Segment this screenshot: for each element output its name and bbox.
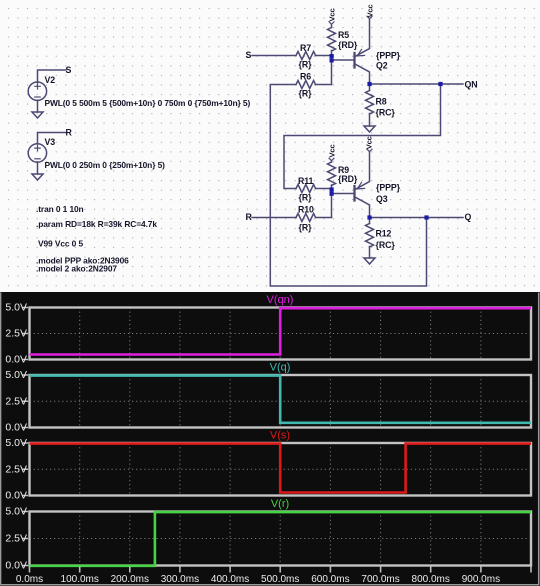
node base Q3 — [330, 192, 334, 196]
node R11/R9 — [330, 187, 334, 191]
wire R6 left / feedback from Q — [270, 85, 426, 287]
svg-text:{R}: {R} — [299, 193, 313, 203]
svg-text:200.0ms: 200.0ms — [111, 574, 149, 585]
svg-text:0.0V: 0.0V — [5, 354, 27, 366]
voltage source V2 — [28, 82, 46, 100]
resistor R6 — [296, 81, 316, 89]
svg-text:0.0V: 0.0V — [5, 422, 27, 434]
svg-text:S: S — [246, 50, 252, 60]
wire Q3 collector to R12 — [369, 218, 371, 224]
svg-text:900.0ms: 900.0ms — [462, 574, 500, 585]
pane 3 border — [30, 443, 532, 496]
svg-text:V(s): V(s) — [270, 430, 290, 442]
schematic background — [0, 0, 540, 292]
junction node dots — [330, 54, 443, 220]
x-axis ticks — [30, 567, 532, 573]
svg-text:0.0ms: 0.0ms — [16, 574, 43, 585]
svg-text:{R}: {R} — [299, 60, 313, 70]
svg-text:PWL(0 0 250m 0 {250m+10n} 5): PWL(0 0 250m 0 {250m+10n} 5) — [45, 160, 166, 170]
svg-text:800.0ms: 800.0ms — [412, 574, 450, 585]
pane 3 gridlines — [30, 443, 532, 496]
node QN at Q2 collector — [367, 82, 371, 86]
svg-text:Vcc: Vcc — [327, 144, 336, 157]
svg-text:700.0ms: 700.0ms — [361, 574, 399, 585]
svg-text:2.5V: 2.5V — [5, 395, 27, 407]
pane 4 y-axis ticks — [23, 512, 29, 566]
wire R11 right to node — [316, 188, 332, 190]
pane 4 border — [30, 512, 532, 566]
pane 4 y-axis labels — [5, 506, 27, 572]
svg-text:Vcc: Vcc — [364, 136, 373, 149]
pane 1 border — [30, 308, 532, 360]
ground (V3) — [32, 174, 43, 180]
svg-text:600.0ms: 600.0ms — [311, 574, 349, 585]
svg-text:R10: R10 — [298, 205, 314, 215]
resistor R10 — [296, 214, 316, 222]
svg-text:V99 Vcc 0 5: V99 Vcc 0 5 — [38, 239, 83, 249]
wire V3 bottom — [37, 162, 39, 174]
wire R input to R10 — [252, 217, 296, 219]
resistor R5 — [328, 28, 336, 52]
pane 2 gridlines — [30, 375, 532, 428]
schematic text labels — [36, 4, 478, 273]
svg-text:.param RD=18k R=39k RC=4.7k: .param RD=18k R=39k RC=4.7k — [36, 219, 157, 229]
svg-text:Vcc: Vcc — [365, 4, 374, 17]
svg-text:R6: R6 — [300, 72, 311, 82]
svg-text:2.5V: 2.5V — [5, 463, 27, 475]
x-axis labels — [16, 574, 500, 585]
pane 3 y-axis ticks — [23, 443, 29, 496]
wire R8 to ground — [369, 114, 371, 127]
svg-text:R: R — [246, 212, 253, 222]
svg-text:S: S — [66, 65, 72, 75]
wire R12 to ground — [369, 247, 371, 259]
waveform window background — [0, 292, 540, 586]
pane 2 border — [30, 375, 532, 428]
svg-text:R8: R8 — [376, 97, 387, 107]
pane 1 y-axis labels — [5, 302, 27, 366]
transistor Q3 — [355, 152, 370, 218]
transistor Q2 — [355, 19, 370, 85]
svg-text:5.0V: 5.0V — [5, 506, 27, 518]
node base Q2 — [330, 58, 334, 62]
pane 2 y-axis ticks — [23, 375, 29, 428]
Vcc flag (above R9) — [329, 158, 334, 161]
node Q at Q3 collector — [367, 215, 371, 219]
trace V(r) — [30, 512, 532, 566]
ground (R12) — [364, 258, 375, 264]
svg-text:R7: R7 — [300, 43, 311, 53]
svg-text:5.0V: 5.0V — [5, 369, 27, 381]
resistor R11 — [296, 185, 316, 193]
svg-text:{PPP}: {PPP} — [376, 183, 401, 193]
svg-text:500.0ms: 500.0ms — [261, 574, 299, 585]
pane 3 y-axis labels — [5, 437, 27, 502]
svg-text:{RC}: {RC} — [376, 108, 396, 118]
wire V2 top to S — [38, 70, 67, 82]
svg-text:100.0ms: 100.0ms — [61, 574, 99, 585]
svg-text:5.0V: 5.0V — [5, 302, 27, 314]
wire base Q3 — [332, 193, 354, 195]
wire Vcc to R9 — [331, 161, 333, 162]
svg-text:R: R — [66, 128, 73, 138]
svg-text:2.5V: 2.5V — [5, 328, 27, 340]
svg-text:R11: R11 — [298, 176, 314, 186]
svg-text:V(q): V(q) — [270, 362, 291, 374]
svg-text:{R}: {R} — [299, 89, 313, 99]
Vcc flag (Q2 emitter) — [367, 16, 372, 19]
wire R10 right to node — [316, 217, 332, 219]
svg-text:V3: V3 — [45, 137, 56, 147]
wire S input to R7 — [252, 55, 296, 57]
svg-text:V(qn): V(qn) — [267, 294, 294, 306]
svg-text:2.5V: 2.5V — [5, 533, 27, 545]
svg-text:{RC}: {RC} — [376, 240, 396, 250]
svg-text:300.0ms: 300.0ms — [161, 574, 199, 585]
wire R9 node vertical — [331, 185, 333, 218]
wire R5 bottom node vertical — [331, 51, 333, 85]
wire Q — [370, 217, 464, 219]
wire Vcc to R5 — [331, 24, 333, 27]
svg-text:V2: V2 — [45, 75, 56, 85]
pane 2 y-axis labels — [5, 369, 27, 434]
wire R7 to node — [316, 55, 332, 57]
ground (V2) — [32, 112, 43, 118]
svg-text:Q: Q — [465, 212, 472, 222]
svg-text:{PPP}: {PPP} — [376, 51, 401, 61]
svg-text:0.0V: 0.0V — [5, 490, 27, 502]
wire QN — [370, 83, 464, 85]
node Q feedback — [424, 215, 428, 219]
pane 1 y-axis ticks — [23, 308, 29, 360]
voltage source V3 — [28, 144, 46, 162]
svg-text:V(r): V(r) — [271, 498, 289, 510]
waveform window border — [1, 293, 540, 586]
svg-text:400.0ms: 400.0ms — [211, 574, 249, 585]
resistor R7 — [296, 52, 316, 60]
trace V(qn) — [30, 308, 532, 354]
svg-text:Q3: Q3 — [376, 194, 388, 204]
svg-text:.model 2 ako:2N2907: .model 2 ako:2N2907 — [36, 264, 117, 274]
wire QN feedback down-left — [284, 84, 441, 189]
wire V2 bottom — [37, 100, 39, 112]
svg-text:Q2: Q2 — [376, 61, 388, 71]
svg-text:QN: QN — [465, 79, 478, 89]
resistor R9 — [328, 162, 336, 185]
resistor R12 — [366, 224, 374, 247]
svg-text:{RD}: {RD} — [338, 40, 358, 50]
pane 4 gridlines — [30, 512, 532, 566]
ground (R8) — [364, 126, 375, 132]
trace V(q) — [30, 376, 532, 423]
wire V3 top to R — [38, 133, 67, 145]
trace V(s) — [30, 444, 532, 493]
svg-text:Vcc: Vcc — [327, 8, 336, 21]
svg-text:{R}: {R} — [299, 223, 313, 233]
svg-text:R12: R12 — [376, 229, 392, 239]
svg-text:5.0V: 5.0V — [5, 437, 27, 449]
svg-text:{RD}: {RD} — [338, 174, 358, 184]
wire base Q2 — [332, 59, 354, 61]
Vcc flag (Q3 emitter) — [367, 149, 372, 152]
svg-text:0.0V: 0.0V — [5, 560, 27, 572]
Vcc flag (above R5) — [329, 22, 334, 25]
resistor R8 — [366, 91, 374, 115]
svg-text:.tran 0 1 10n: .tran 0 1 10n — [36, 204, 84, 214]
wire Q2 collector to R8 — [369, 84, 371, 91]
node R7/R5 — [330, 54, 334, 58]
pane 1 gridlines — [30, 308, 532, 360]
svg-text:PWL(0 5 500m 5 {500m+10n} 0 75: PWL(0 5 500m 5 {500m+10n} 0 750m 0 {750m… — [45, 98, 251, 108]
node QN feedback — [438, 82, 442, 86]
svg-text:R5: R5 — [338, 30, 349, 40]
wire R6 right to node — [316, 84, 332, 86]
